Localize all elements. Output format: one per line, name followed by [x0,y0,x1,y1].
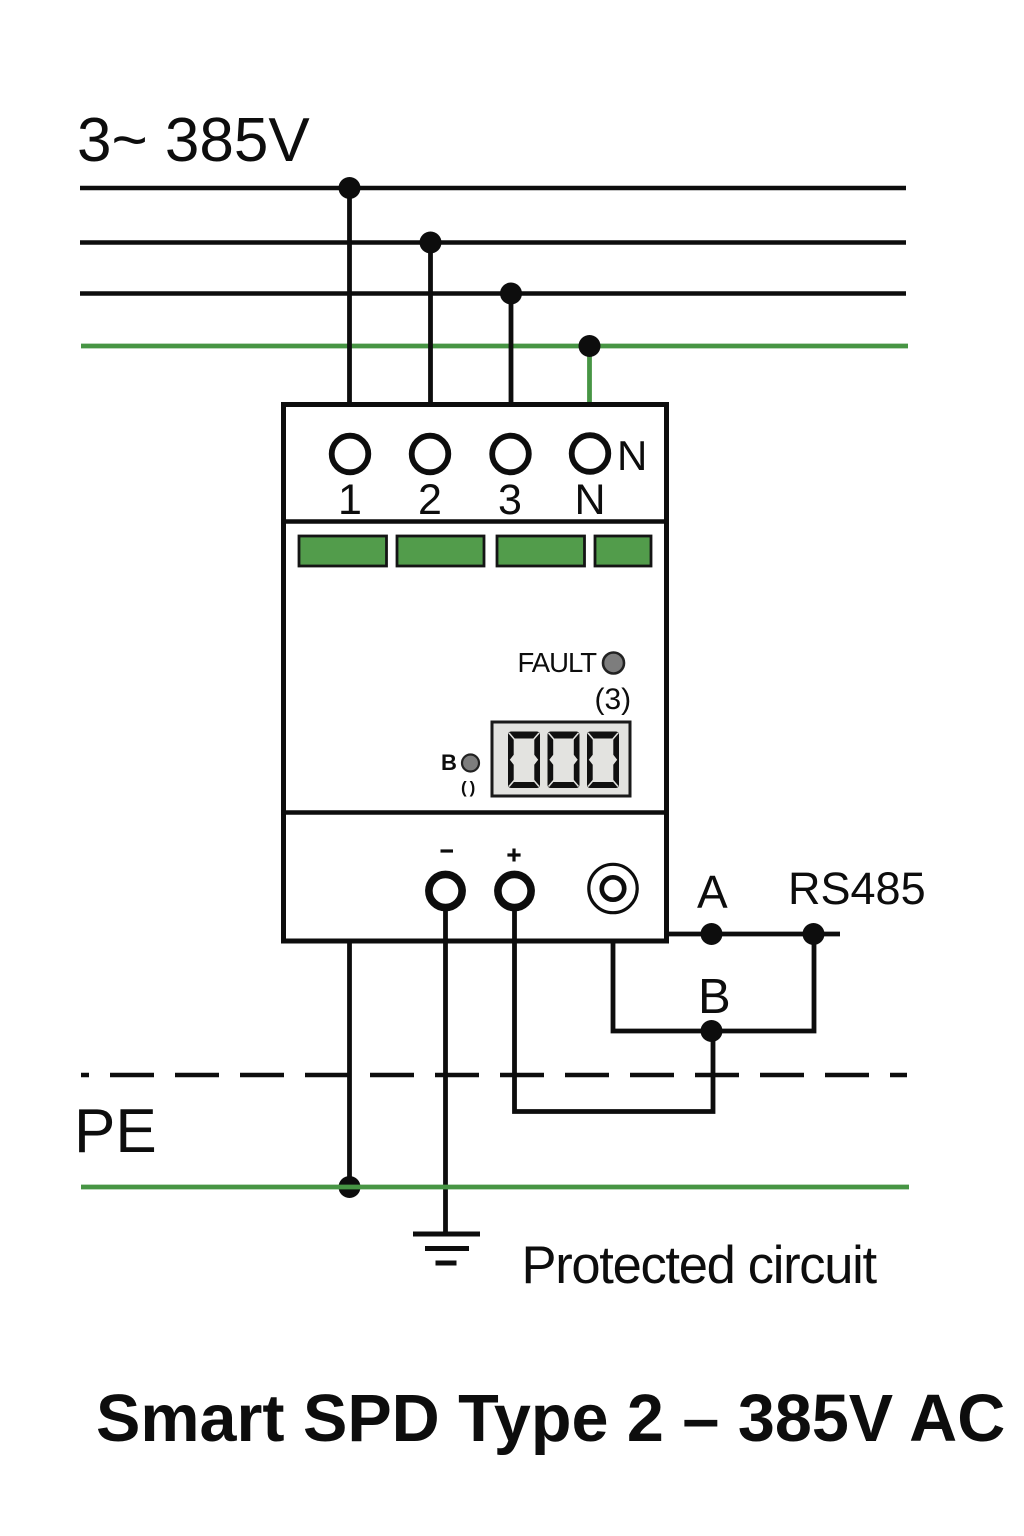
svg-text:A: A [697,866,728,918]
svg-text:RS485: RS485 [788,863,926,914]
svg-text:FAULT: FAULT [518,647,598,678]
svg-text:N: N [617,432,647,479]
svg-text:2: 2 [418,476,442,524]
svg-text:3~ 385V: 3~ 385V [77,106,310,175]
svg-text:PE: PE [74,1097,157,1166]
svg-text:1: 1 [338,476,362,524]
svg-text:Smart SPD Type 2 – 385V AC: Smart SPD Type 2 – 385V AC [96,1382,1005,1456]
svg-text:3: 3 [498,476,522,524]
svg-text:(): () [461,778,478,797]
svg-text:N: N [574,476,605,524]
svg-text:B: B [441,750,457,775]
svg-text:B: B [698,970,731,1024]
svg-text:Protected circuit: Protected circuit [522,1236,878,1295]
svg-text:(3): (3) [595,683,632,716]
